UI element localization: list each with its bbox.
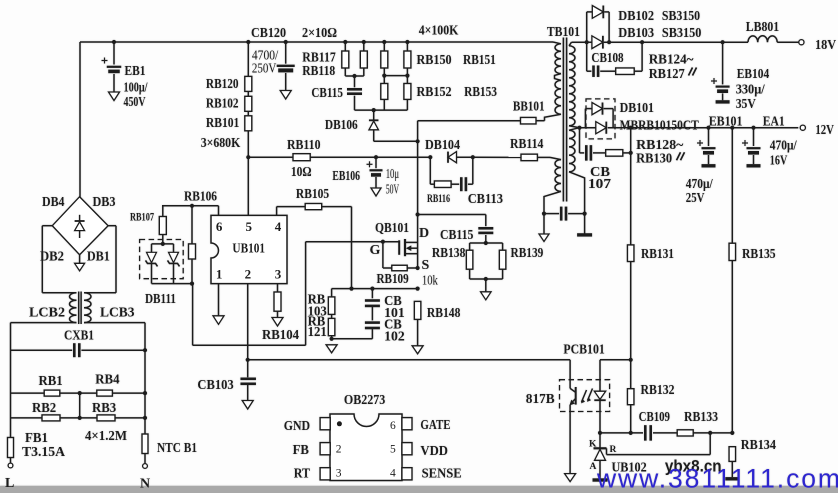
svg-text:RB130: RB130 (636, 152, 672, 167)
capacitor CB103 (197, 378, 256, 409)
op-amp U1 UB101 controller IC (211, 215, 287, 283)
svg-text:RB106: RB106 (184, 190, 217, 205)
svg-text:25V: 25V (686, 191, 705, 206)
svg-text:817B: 817B (526, 392, 555, 407)
svg-text:5: 5 (246, 219, 253, 234)
resistor RB105 from pin 4 (277, 187, 352, 289)
svg-text:4: 4 (390, 468, 396, 480)
svg-text:450V: 450V (124, 95, 146, 110)
resistor RB106 (184, 190, 217, 284)
bottom gray bar (0, 486, 838, 493)
capacitor CB107 and resistors RB128-RB130 snubber (580, 128, 685, 192)
svg-text:GATE: GATE (420, 418, 450, 433)
svg-text:www.3811111.com: www.3811111.com (596, 464, 838, 493)
svg-text:RB135: RB135 (742, 247, 776, 262)
svg-text:R: R (610, 445, 617, 455)
wire primary ground rail (248, 359, 570, 361)
svg-text:RB153: RB153 (464, 85, 497, 100)
resistor RB135 (729, 128, 776, 433)
svg-text:RB101: RB101 (206, 116, 239, 131)
svg-text:10Ω: 10Ω (291, 165, 312, 180)
svg-text:RB139: RB139 (511, 246, 544, 261)
svg-text:CXB1: CXB1 (64, 329, 94, 344)
svg-text:RB152: RB152 (417, 85, 452, 100)
svg-text:NTC B1: NTC B1 (157, 441, 197, 456)
resistor RB116 and capacitor CB113 snubber branch (427, 157, 503, 207)
transistor Q1 QB101 MOSFET (370, 221, 438, 289)
resistor BB101 (513, 100, 545, 124)
resistor RB114 (473, 137, 550, 161)
svg-text:2: 2 (336, 444, 342, 456)
capacitor EA1 (742, 114, 798, 168)
wire drain line and BB101 feed (417, 121, 419, 268)
resistor RB133 (677, 410, 734, 436)
svg-text:6: 6 (390, 420, 396, 432)
svg-text:35V: 35V (736, 97, 756, 112)
wire RB110 to DB104 (310, 156, 430, 158)
inductor LCB2 LCB3 common-mode choke (29, 292, 135, 325)
terminal 18V (799, 40, 804, 45)
svg-text:RB151: RB151 (463, 53, 496, 68)
wire opto LED top segment (600, 359, 631, 361)
diode pair DB111 (140, 240, 194, 308)
ground arrow aux winding (543, 214, 545, 234)
svg-text:RB114: RB114 (510, 137, 543, 152)
capacitor CB108 and resistors RB124-RB127 snubber (587, 42, 697, 82)
svg-text:QB101: QB101 (375, 221, 409, 236)
svg-text:EB101: EB101 (709, 114, 743, 129)
capacitor EB101 (686, 114, 743, 206)
terminal 12V (800, 125, 805, 130)
svg-text:G: G (370, 243, 381, 258)
svg-text:100μ/: 100μ/ (124, 81, 149, 96)
diode DB106 (325, 108, 379, 141)
svg-text:DB3: DB3 (93, 195, 116, 210)
transformer TB101 auxiliary winding (544, 157, 561, 213)
resistor RB132 (627, 360, 674, 435)
svg-text:EB1: EB1 (125, 64, 146, 79)
transformer TB101 primary winding (545, 42, 562, 121)
svg-text:RB132: RB132 (641, 383, 675, 398)
svg-text:RB131: RB131 (641, 247, 674, 262)
svg-text:LCB3: LCB3 (100, 306, 135, 321)
svg-text:RB118: RB118 (302, 64, 335, 79)
svg-text:DB2: DB2 (40, 249, 64, 264)
svg-text:470μ/: 470μ/ (770, 139, 798, 154)
svg-text:GND: GND (284, 419, 310, 434)
svg-text:RB134: RB134 (741, 438, 776, 453)
capacitor EB104 (711, 42, 769, 112)
resistor RB104 on pin 3 (262, 284, 299, 343)
svg-text:CB115: CB115 (311, 86, 343, 101)
svg-text:RB1: RB1 (39, 374, 63, 389)
svg-text:D: D (419, 226, 429, 241)
svg-text:SENSE: SENSE (422, 467, 462, 482)
svg-text:CB113: CB113 (468, 192, 503, 207)
resistor chain RB120 RB102 RB101 (201, 42, 252, 215)
svg-text:5: 5 (390, 444, 396, 456)
svg-text:4×1.2M: 4×1.2M (85, 429, 127, 444)
svg-text:RB104: RB104 (262, 328, 299, 343)
svg-text:LB801: LB801 (746, 20, 779, 35)
svg-text:RB107: RB107 (130, 210, 154, 224)
capacitor CXB1 (11, 329, 148, 358)
svg-text:SB3150: SB3150 (662, 26, 702, 41)
svg-text:FB1: FB1 (25, 431, 48, 446)
svg-text:DB1: DB1 (87, 249, 110, 264)
capacitors CB101 CB102 (332, 289, 405, 345)
svg-text:DB104: DB104 (425, 138, 460, 153)
resistors RB117 RB118 (2x10 ohm) (302, 26, 367, 79)
svg-text:SB3150: SB3150 (662, 9, 700, 24)
svg-text:3: 3 (275, 267, 282, 282)
svg-text:RB102: RB102 (206, 97, 239, 112)
resistor RB134 (725, 438, 776, 479)
wire bridge to line filter (42, 225, 52, 227)
svg-text:RB105: RB105 (296, 187, 329, 202)
svg-text:FB: FB (293, 443, 309, 458)
wire gate drive loop (192, 284, 194, 346)
svg-text:RT: RT (294, 467, 311, 482)
svg-text:CB120: CB120 (251, 26, 286, 41)
diode DB101 lower half MBRB10150CT (596, 122, 607, 134)
svg-text:RB150: RB150 (417, 53, 452, 68)
capacitor EB106 (332, 155, 399, 198)
optocoupler PCB101 817B (526, 343, 610, 482)
svg-text:1: 1 (216, 267, 223, 282)
dashed box DB101 (586, 99, 615, 139)
svg-text:121: 121 (308, 325, 327, 340)
diode DB101 upper half parallel branch (585, 103, 613, 128)
resistors RB103 RB121 (308, 289, 338, 353)
resistors RB138 RB139 (432, 243, 543, 300)
svg-text:RB110: RB110 (287, 138, 321, 153)
diode DB103 SB3150 (592, 26, 702, 49)
wire UB101 pin 6 (218, 206, 220, 216)
resistor RB107 (130, 206, 166, 244)
svg-text:RB109: RB109 (377, 272, 409, 287)
svg-text:CB109: CB109 (639, 410, 670, 425)
transformer TB101 secondary winding 12V section (569, 128, 585, 214)
svg-text:16V: 16V (770, 154, 788, 169)
svg-text:LCB2: LCB2 (29, 306, 65, 321)
svg-text:S: S (422, 258, 430, 273)
ground arrow UB101 pin 1 (218, 284, 220, 316)
svg-text:OB2273: OB2273 (344, 393, 385, 408)
wire filter rails (11, 322, 77, 324)
svg-text:RB120: RB120 (206, 77, 239, 92)
svg-text:VDD: VDD (420, 444, 448, 459)
svg-text:DB111: DB111 (145, 292, 176, 307)
svg-text:4×100K: 4×100K (419, 24, 459, 39)
svg-text:BB101: BB101 (513, 100, 545, 115)
resistor RB110 (287, 138, 321, 180)
capacitor Y-cap transformer bottom (542, 207, 587, 221)
svg-text:RB127: RB127 (649, 67, 685, 82)
svg-text:3×680K: 3×680K (201, 136, 241, 151)
svg-text:330μ/: 330μ/ (736, 83, 766, 98)
svg-text:PCB101: PCB101 (563, 343, 604, 358)
transformer TB101 secondary winding 18V section (569, 42, 580, 128)
svg-text:2×10Ω: 2×10Ω (302, 26, 337, 41)
svg-text:MBRB10150CT: MBRB10150CT (620, 118, 700, 133)
inductor LB801 (746, 20, 779, 42)
diode DB104 (425, 138, 475, 163)
wire feedback lower rail (600, 432, 643, 434)
svg-text:L: L (5, 476, 14, 491)
capacitor EB1 (102, 42, 149, 110)
IC OB2273 pinout diagram (284, 393, 462, 482)
svg-text:T3.15A: T3.15A (22, 445, 66, 460)
svg-text:10μ: 10μ (386, 167, 399, 182)
svg-text:K: K (589, 440, 597, 450)
svg-text:CB115: CB115 (440, 228, 473, 243)
capacitor CB115 (clamp) (311, 76, 362, 110)
wire primary top rail (80, 41, 553, 43)
resistors RB2 RB3 (11, 393, 148, 444)
wire 18V rail (572, 41, 592, 43)
thermistor NTC B1 (140, 434, 197, 491)
capacitor CB115 drain snubber (416, 212, 494, 245)
svg-text:50V: 50V (386, 183, 399, 198)
resistors RB150 RB151 RB152 RB153 (4x100K) (355, 24, 498, 110)
wire VDD rail RB110 row (248, 156, 293, 158)
svg-text:RB3: RB3 (92, 401, 116, 416)
svg-text:RB133: RB133 (684, 410, 718, 425)
svg-text:DB102: DB102 (618, 9, 654, 24)
svg-text:DB103: DB103 (618, 26, 654, 41)
svg-text:DB106: DB106 (325, 118, 358, 133)
svg-text:DB4: DB4 (42, 195, 65, 210)
svg-text:2: 2 (245, 267, 252, 282)
wire DB106 to drain line (374, 140, 418, 142)
capacitor CB120 (251, 26, 295, 99)
svg-text:3: 3 (336, 468, 342, 480)
svg-text:RB138: RB138 (432, 246, 466, 261)
bridge rectifier DB1-DB4 (40, 195, 116, 271)
svg-text:EB106: EB106 (332, 169, 360, 184)
svg-text:6: 6 (216, 219, 223, 234)
capacitor CB109 (639, 410, 678, 441)
svg-text:12V: 12V (815, 123, 834, 138)
svg-text:A: A (590, 462, 597, 472)
svg-text:RB2: RB2 (32, 401, 56, 416)
shunt regulator UB102 (589, 433, 710, 480)
diode DB102 SB3150 parallel branch (587, 6, 700, 43)
svg-text:470μ/: 470μ/ (686, 177, 714, 192)
svg-text:CB103: CB103 (197, 378, 233, 393)
resistors RB1 RB4 (11, 373, 148, 396)
svg-text:RB124~: RB124~ (649, 52, 694, 67)
svg-text:RB148: RB148 (427, 306, 461, 321)
svg-text:102: 102 (384, 329, 405, 344)
node dots on top rail (112, 40, 116, 44)
resistor RB131 (627, 128, 674, 360)
svg-text:18V: 18V (815, 38, 836, 53)
svg-text:N: N (140, 476, 150, 491)
svg-text:UB101: UB101 (232, 242, 265, 257)
svg-text:RB116: RB116 (427, 193, 450, 205)
svg-text:EA1: EA1 (763, 114, 785, 129)
resistor RB109 gate-source (377, 242, 420, 287)
svg-text:RB4: RB4 (95, 373, 119, 388)
svg-text:4: 4 (275, 219, 282, 234)
svg-text:EB104: EB104 (737, 67, 769, 82)
wire 12V rail (580, 127, 596, 129)
transformer TB101 core (547, 25, 580, 202)
svg-text:DB101: DB101 (620, 101, 654, 116)
svg-text:CB108: CB108 (591, 51, 623, 66)
svg-text:107: 107 (588, 177, 611, 192)
svg-text:10k: 10k (422, 274, 438, 289)
resistor RB148 source sense (412, 301, 460, 353)
ground bar secondary (584, 214, 586, 234)
svg-text:250V: 250V (252, 62, 276, 77)
fuse FB1 T3.15A (5, 431, 66, 491)
wire feedback divider rail (332, 288, 418, 290)
wire UB101 pin 2 to ground rail (247, 284, 249, 378)
